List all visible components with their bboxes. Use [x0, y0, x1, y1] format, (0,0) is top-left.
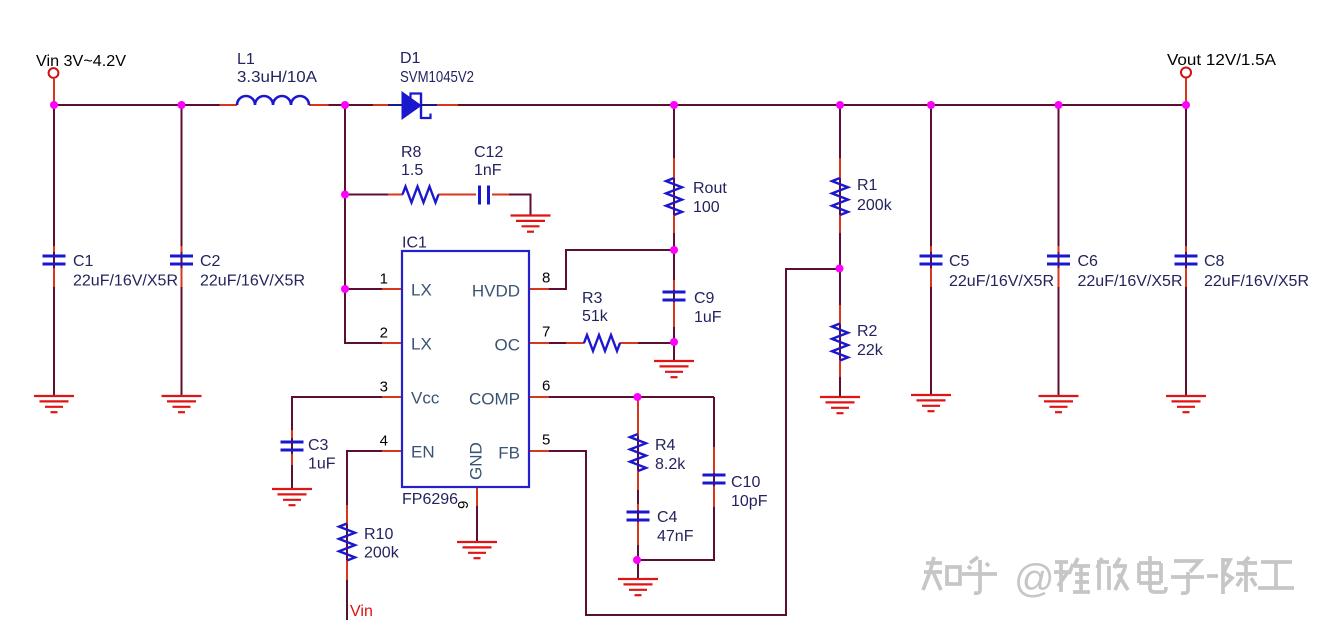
svg-text:200k: 200k — [857, 197, 893, 214]
op-amp/IC U1 FP6296 body — [402, 251, 529, 487]
pin 5 stub — [528, 450, 549, 452]
junction node C4 bottom — [633, 556, 641, 564]
svg-text:Vin 3V~4.2V: Vin 3V~4.2V — [36, 53, 126, 70]
svg-text:C8: C8 — [1204, 253, 1225, 270]
junction node Vin rail — [50, 101, 58, 109]
svg-text:R4: R4 — [655, 437, 676, 454]
wire EN branch — [346, 450, 383, 452]
svg-text:C10: C10 — [731, 474, 760, 491]
ground C4 — [618, 579, 658, 595]
lead C9 bottom — [673, 302, 675, 327]
svg-text:1nF: 1nF — [474, 162, 502, 179]
svg-text:4: 4 — [380, 433, 388, 450]
svg-text:IC1: IC1 — [402, 235, 427, 252]
svg-text:Rout: Rout — [693, 180, 727, 197]
lead C1 top — [53, 246, 55, 252]
svg-text:2: 2 — [380, 325, 388, 342]
svg-text:C6: C6 — [1078, 253, 1099, 270]
svg-text:HVDD: HVDD — [472, 282, 520, 301]
lead R1 bottom — [839, 215, 841, 233]
svg-text:7: 7 — [542, 324, 550, 341]
junction node HVDD C9 — [670, 246, 678, 254]
svg-text:C12: C12 — [474, 144, 503, 161]
svg-text:SVM1045V2: SVM1045V2 — [400, 69, 474, 86]
wire C2 column — [181, 105, 183, 396]
lead C8 bottom — [1185, 268, 1187, 287]
svg-text:22uF/16V/X5R: 22uF/16V/X5R — [1078, 273, 1183, 290]
pin 1 stub — [382, 288, 403, 290]
lead D1 right — [436, 104, 458, 106]
ground C8 — [1166, 396, 1206, 412]
svg-text:8: 8 — [542, 270, 550, 287]
port Vout terminal — [1181, 68, 1191, 78]
svg-text:1uF: 1uF — [308, 456, 336, 473]
lead L1 left — [220, 104, 238, 106]
svg-text:Vcc: Vcc — [411, 389, 440, 408]
wire FB stub run — [548, 450, 587, 452]
ground C12 — [511, 216, 551, 232]
capacitor C2 — [170, 256, 193, 264]
junction node LX pin1 — [341, 285, 349, 293]
pin 3 stub — [382, 396, 403, 398]
lead C4 bottom — [637, 522, 639, 545]
capacitor C1 — [43, 256, 66, 264]
wire C3 column — [291, 396, 293, 488]
watermark zhihu text — [923, 556, 1294, 594]
svg-text:22uF/16V/X5R: 22uF/16V/X5R — [73, 273, 178, 290]
wire C4 C10 bottom tie — [637, 559, 714, 561]
pin 2 stub — [382, 342, 403, 344]
svg-text:47nF: 47nF — [657, 528, 694, 545]
wire LX vertical — [344, 105, 346, 344]
svg-text:C9: C9 — [694, 290, 715, 307]
wire C9 column — [673, 250, 675, 342]
pin 7 stub — [528, 342, 549, 344]
svg-text:R10: R10 — [364, 526, 393, 543]
svg-text:FP6296: FP6296 — [402, 491, 458, 508]
port Vin terminal — [49, 68, 59, 78]
svg-text:R8: R8 — [401, 144, 422, 161]
lead L1 right — [309, 104, 329, 106]
junction node C6 rail — [1055, 101, 1063, 109]
lead C6 bottom — [1058, 268, 1060, 287]
svg-text:22uF/16V/X5R: 22uF/16V/X5R — [949, 273, 1054, 290]
capacitor C9 — [663, 292, 686, 300]
lead Rout top — [673, 158, 675, 178]
lead C10 top — [713, 447, 715, 473]
svg-text:EN: EN — [411, 443, 435, 462]
svg-text:C4: C4 — [657, 509, 678, 526]
wire feedback bottom run — [586, 614, 787, 616]
ground C5 — [911, 395, 951, 411]
lead C6 top — [1058, 246, 1060, 252]
ground C1 — [34, 396, 74, 412]
svg-text:6: 6 — [542, 378, 550, 395]
wire feedback riser — [785, 268, 787, 616]
wire C10 column — [713, 397, 715, 561]
wire C5 column — [930, 105, 932, 395]
lead C5 top — [930, 246, 932, 252]
svg-text:L1: L1 — [237, 51, 255, 68]
wire HVDD top run — [566, 249, 674, 251]
ground C2 — [162, 396, 202, 412]
lead GND pin — [476, 487, 478, 506]
lead R3 left — [566, 342, 585, 344]
svg-text:LX: LX — [411, 335, 432, 354]
wire Rout column — [673, 105, 675, 250]
svg-text:D1: D1 — [400, 50, 421, 67]
lead C3 top — [291, 430, 293, 438]
svg-text:C3: C3 — [308, 437, 329, 454]
svg-text:22k: 22k — [857, 342, 884, 359]
wire LX pin2 branch — [345, 342, 383, 344]
pin 8 stub — [528, 288, 549, 290]
wire top rail left of L1 — [54, 104, 237, 106]
lead R4 top — [637, 399, 639, 436]
junction node divider tap — [836, 265, 844, 273]
junction node R8 branch — [341, 191, 349, 199]
svg-text:Vout 12V/1.5A: Vout 12V/1.5A — [1167, 52, 1276, 69]
svg-text:LX: LX — [411, 281, 432, 300]
svg-text:C1: C1 — [73, 253, 94, 270]
wire FB drop — [585, 451, 587, 616]
wire COMP row — [548, 396, 714, 398]
capacitor C12 — [480, 186, 489, 205]
lead C12 right — [492, 194, 509, 196]
lead R4 bottom — [637, 470, 639, 490]
wire R1 R2 column — [839, 105, 841, 397]
svg-text:R2: R2 — [857, 323, 878, 340]
svg-text:22uF/16V/X5R: 22uF/16V/X5R — [200, 273, 305, 290]
wire OC stub — [548, 342, 570, 344]
junction node C2 rail — [178, 101, 186, 109]
lead R10 top — [346, 505, 348, 524]
wire C1 column — [53, 105, 55, 396]
svg-text:3: 3 — [380, 379, 388, 396]
svg-text:200k: 200k — [364, 545, 400, 562]
wire R4 C4 column — [637, 397, 639, 578]
junction node R1 rail — [836, 101, 844, 109]
svg-text:GND: GND — [467, 442, 486, 480]
ground R2 — [820, 397, 860, 413]
lead R8 right — [438, 194, 476, 196]
lead R3 right — [620, 342, 639, 344]
junction node C5 rail — [927, 101, 935, 109]
svg-text:8.2k: 8.2k — [655, 456, 686, 473]
lead Vin port — [53, 79, 55, 104]
lead Rout bottom — [673, 215, 675, 233]
ground C6 — [1039, 396, 1079, 412]
inductor L1 — [237, 96, 309, 105]
svg-text:R3: R3 — [582, 290, 603, 307]
junction node COMP R4 — [634, 393, 642, 401]
wire HVDD riser — [565, 249, 567, 290]
wire Vcc row — [291, 396, 383, 398]
lead R8 left — [388, 194, 403, 196]
capacitor C3 — [281, 442, 304, 450]
junction node Rout rail — [670, 101, 678, 109]
junction node LX rail — [341, 101, 349, 109]
svg-text:5: 5 — [542, 432, 550, 449]
svg-text:@: @ — [1014, 557, 1055, 601]
lead R2 bottom — [839, 360, 841, 377]
lead C10 bottom — [713, 486, 715, 507]
pin 6 stub — [528, 396, 549, 398]
lead C4 top — [637, 504, 639, 510]
svg-text:OC: OC — [495, 336, 521, 355]
resistor Rout — [666, 178, 682, 215]
lead Vout port — [1185, 78, 1187, 104]
lead R2 top — [839, 305, 841, 324]
resistor R2 — [832, 324, 848, 361]
svg-text:51k: 51k — [582, 308, 609, 325]
svg-text:Vin: Vin — [350, 603, 373, 620]
ground C9 — [654, 361, 694, 377]
wire R3 to node — [635, 342, 675, 344]
ground IC GND — [457, 542, 497, 558]
resistor R8 — [403, 187, 439, 203]
capacitor C5 — [920, 256, 943, 264]
wire top rail right of L1 — [309, 104, 1186, 106]
capacitor C8 — [1175, 256, 1198, 264]
wire R8 row stub — [345, 194, 390, 196]
wire LX pin1 branch — [345, 288, 383, 290]
wire GND pin drop — [476, 505, 478, 541]
junction node Vout rail — [1182, 101, 1190, 109]
diode D1 — [388, 92, 437, 119]
svg-text:10pF: 10pF — [731, 493, 768, 510]
lead D1 left — [373, 104, 389, 106]
wire C8 column — [1185, 105, 1187, 396]
lead C8 top — [1185, 246, 1187, 252]
lead C2 bottom — [181, 268, 183, 287]
resistor R1 — [832, 178, 848, 215]
resistor R10 — [339, 524, 355, 561]
svg-text:3.3uH/10A: 3.3uH/10A — [237, 69, 317, 86]
svg-text:22uF/16V/X5R: 22uF/16V/X5R — [1204, 273, 1309, 290]
svg-text:COMP: COMP — [469, 390, 520, 409]
lead C3 bottom — [291, 454, 293, 465]
resistor R4 — [630, 434, 646, 471]
capacitor C10 — [703, 475, 726, 483]
svg-text:1uF: 1uF — [694, 309, 722, 326]
lead R1 top — [839, 158, 841, 178]
lead C5 bottom — [930, 268, 932, 287]
wire C12 to ground run — [509, 194, 532, 196]
lead C1 bottom — [53, 268, 55, 287]
lead C9 top — [673, 280, 675, 290]
pin 4 stub — [382, 450, 403, 452]
capacitor C4 — [627, 512, 650, 520]
svg-text:R1: R1 — [857, 177, 878, 194]
svg-text:C2: C2 — [200, 253, 221, 270]
wire C6 column — [1058, 105, 1060, 396]
wire C9 ground stub — [673, 343, 675, 360]
ground C3 — [272, 489, 312, 505]
wire feedback tap — [785, 268, 840, 270]
svg-text:1.5: 1.5 — [401, 162, 423, 179]
resistor R3 — [584, 335, 620, 351]
wire C12 ground drop — [530, 194, 532, 215]
svg-text:1: 1 — [380, 271, 388, 288]
wire HVDD stub — [548, 288, 567, 290]
lead C2 top — [181, 246, 183, 252]
wire R10 column — [346, 451, 348, 620]
svg-text:C5: C5 — [949, 253, 970, 270]
svg-text:100: 100 — [693, 199, 720, 216]
svg-text:FB: FB — [498, 444, 520, 463]
junction node C9 R3 — [670, 338, 678, 346]
lead R10 bottom — [346, 560, 348, 580]
capacitor C6 — [1047, 256, 1070, 264]
